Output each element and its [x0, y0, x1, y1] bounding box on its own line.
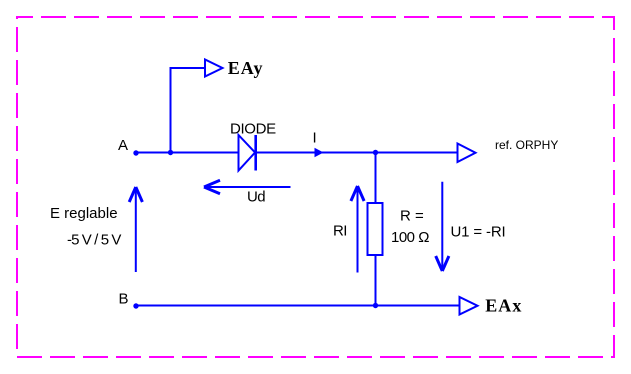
- current arrow RI: [351, 186, 364, 273]
- svg-text:E reglable: E reglable: [50, 205, 118, 222]
- node B junction dot: [133, 303, 138, 308]
- resistor R body: [368, 203, 383, 255]
- wire diode cathode to ref. ORPHY: [256, 152, 458, 154]
- voltage arrow U1: [436, 182, 449, 271]
- wire resistor bottom lead: [375, 255, 377, 306]
- connector arrow ref. ORPHY: [458, 144, 476, 163]
- diode D1 triangle: [239, 135, 256, 171]
- svg-text:DIODE: DIODE: [230, 121, 276, 138]
- junction EAy branch: [168, 150, 173, 155]
- svg-text:ref. ORPHY: ref. ORPHY: [495, 138, 558, 152]
- node A junction dot: [133, 150, 138, 155]
- junction node resistor top: [373, 150, 378, 155]
- svg-text:I: I: [313, 130, 317, 147]
- diode D1 cathode bar: [254, 135, 257, 171]
- voltage arrow Ud: [204, 180, 291, 193]
- svg-text:-5 V / 5 V: -5 V / 5 V: [67, 231, 121, 248]
- svg-text:U1 = -RI: U1 = -RI: [451, 223, 506, 240]
- wire B to EAx: [136, 305, 460, 307]
- svg-text:A: A: [118, 137, 128, 154]
- wire resistor top lead: [375, 153, 377, 204]
- svg-text:B: B: [119, 290, 129, 307]
- junction node resistor bottom: [373, 303, 378, 308]
- current arrowhead I: [315, 148, 324, 157]
- svg-text:EAy: EAy: [228, 58, 264, 78]
- svg-text:R =: R =: [400, 207, 424, 224]
- wire EAy vertical: [170, 67, 172, 153]
- svg-text:EAx: EAx: [485, 296, 522, 316]
- connector arrow EAx: [460, 297, 478, 315]
- wire EAy horizontal: [170, 67, 206, 69]
- wire A to diode anode: [136, 152, 239, 154]
- svg-text:RI: RI: [333, 223, 347, 240]
- connector arrow EAy: [205, 60, 223, 77]
- source arrow E: [129, 187, 142, 272]
- svg-text:100 Ω: 100 Ω: [391, 229, 429, 246]
- svg-text:Ud: Ud: [247, 188, 265, 205]
